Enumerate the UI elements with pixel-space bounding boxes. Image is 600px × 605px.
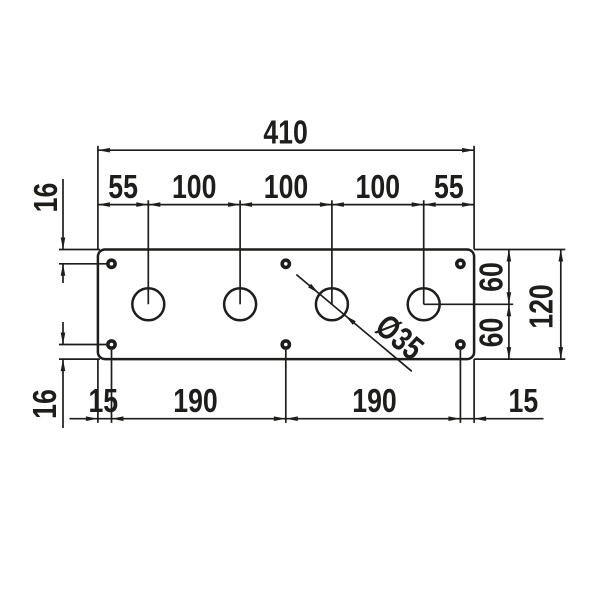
svg-text:60: 60 (474, 262, 511, 292)
dimension 60-60 right (508, 250, 510, 360)
svg-text:100: 100 (172, 169, 217, 206)
svg-text:120: 120 (524, 284, 561, 329)
svg-text:15: 15 (88, 383, 118, 420)
svg-text:55: 55 (434, 169, 464, 206)
dimension 16 top-left (62, 179, 64, 250)
dimension 16 bottom-left (62, 322, 64, 345)
dimension 120 right (560, 250, 562, 360)
svg-text:410: 410 (263, 114, 308, 151)
dimension 410 (98, 149, 474, 151)
hole D35 #2 (224, 288, 256, 320)
leader and label D35 (296, 275, 412, 372)
small hole top-middle (282, 260, 289, 267)
hole D35 #4 (408, 288, 440, 320)
svg-text:15: 15 (509, 383, 539, 420)
small hole top-right (457, 260, 464, 267)
svg-text:16: 16 (27, 389, 64, 419)
small hole bottom-middle (282, 341, 289, 348)
small hole top-left (108, 260, 115, 267)
svg-text:100: 100 (356, 169, 401, 206)
svg-text:55: 55 (108, 169, 138, 206)
extension lines right (474, 249, 565, 251)
small hole bottom-right (457, 341, 464, 348)
extension lines left 16 bottom (59, 344, 107, 346)
plate outline (98, 250, 474, 360)
svg-text:60: 60 (474, 318, 511, 348)
hole D35 #1 (132, 288, 164, 320)
dimension row 15-190-190-15 (70, 418, 544, 420)
svg-text:190: 190 (173, 383, 218, 420)
svg-text:16: 16 (28, 183, 65, 213)
svg-text:190: 190 (352, 383, 397, 420)
small hole bottom-left (108, 341, 115, 348)
hole D35 #3 (316, 288, 348, 320)
extension lines top (97, 146, 99, 250)
dimension row 55-100-100-100-55 (98, 204, 474, 206)
extension lines left 16 top (59, 249, 100, 251)
svg-text:100: 100 (264, 169, 309, 206)
extension lines bottom (97, 359, 99, 423)
